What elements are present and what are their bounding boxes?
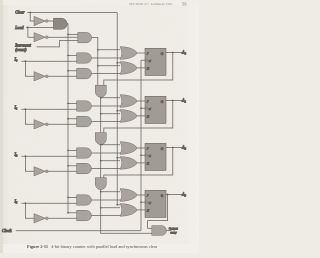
node load bus to K-AND stage 2 bbox=[67, 165, 69, 167]
clock triangle marker stage 3 bbox=[146, 201, 148, 204]
node load bus to J-AND stage 3 bbox=[67, 197, 69, 199]
flip-flop FF2 (JK) bbox=[145, 143, 166, 170]
svg-text:Clock: Clock bbox=[2, 228, 12, 233]
inverter U1 (Clear) bbox=[34, 16, 45, 25]
wire Q output stage 3 bbox=[166, 194, 182, 196]
and-gate load-J stage 2 (Load AND I2) bbox=[77, 148, 92, 158]
wire OR-J output to J input stage 1 bbox=[137, 100, 145, 102]
wire I2 down to inverter bbox=[25, 156, 34, 171]
wire K-AND output to OR-K stage 2 bbox=[91, 168, 120, 170]
wire clock branch to C input stage 1 bbox=[141, 107, 145, 109]
wire A3 feedback to carry gate bbox=[167, 194, 169, 196]
wire Clear down to inverter 1 bbox=[30, 13, 34, 22]
inverter U3 (I0) bbox=[34, 72, 45, 81]
svg-text:Increment: Increment bbox=[14, 43, 32, 47]
node I3 inverter tap bbox=[25, 202, 27, 204]
wire OR-K output to K input stage 1 bbox=[137, 115, 145, 117]
wire Clear-not to AND G1 bbox=[48, 20, 53, 22]
and-gate load-J stage 3 (Load AND I3) bbox=[77, 195, 92, 205]
wire clock branch to C input stage 0 bbox=[141, 59, 145, 61]
wire output carry out bbox=[166, 230, 171, 232]
and-gate load-K stage 2 (Load AND I2-not) bbox=[77, 163, 92, 174]
wire load bus branch to AND G2 top input bbox=[68, 33, 78, 35]
wire A1 feedback to chain AND bbox=[104, 101, 173, 134]
wire I0-not to AND bbox=[48, 75, 76, 77]
wire Clock horizontal bbox=[16, 230, 141, 232]
node I2 inverter tap bbox=[25, 155, 27, 157]
node count line to OR-K stage 3 bbox=[100, 207, 102, 209]
node count line to OR-J stage 1 bbox=[100, 97, 102, 99]
inverter U6 (I3) bbox=[34, 214, 45, 223]
paper background bbox=[0, 0, 199, 253]
wire I2 horizontal bbox=[22, 155, 77, 157]
wire count to OR-K stage 2 bbox=[101, 160, 120, 162]
node load bus to J-AND stage 1 bbox=[67, 103, 69, 105]
or-gate OR-K stage 0 bbox=[120, 62, 137, 75]
wire count to OR-K stage 0 bbox=[98, 65, 120, 67]
wire load bus branch to J-AND stage 3 bbox=[68, 196, 77, 198]
clock triangle marker stage 1 bbox=[146, 107, 148, 110]
svg-text:Clear: Clear bbox=[15, 10, 25, 15]
wire count to OR-K stage 3 bbox=[101, 207, 120, 209]
wire G2 output to count line bbox=[92, 38, 98, 86]
wire load bus branch to K-AND stage 1 bbox=[68, 118, 77, 120]
inverter U5 (I2) bbox=[34, 167, 45, 176]
wire count to OR-J stage 3 bbox=[101, 191, 120, 193]
node load bus to K-AND stage 3 bbox=[67, 212, 69, 214]
wire clear bus branch to OR-K stage 3 bbox=[117, 204, 120, 206]
wire clock branch to C input stage 2 bbox=[141, 154, 145, 156]
wire clock bus vertical bbox=[140, 60, 142, 231]
and-gate load-K stage 0 (Load AND I0-not) bbox=[77, 68, 92, 79]
inverter U2 (Load) bbox=[34, 33, 45, 42]
svg-text:(count): (count) bbox=[15, 48, 27, 52]
node Load inverter tap bbox=[27, 27, 29, 29]
wire clear bus vertical bbox=[116, 13, 118, 205]
node count line to OR-K stage 2 bbox=[100, 160, 102, 162]
node I1 inverter tap bbox=[25, 108, 27, 110]
node load bus to J-AND stage 2 bbox=[67, 150, 69, 152]
and-gate G1 (Load AND Clear-not), dark bbox=[53, 18, 67, 29]
and-gate G2 (count enable: Clear-not AND Load-not AND Increment) bbox=[78, 32, 92, 42]
node load bus to J-AND stage 0 bbox=[67, 55, 69, 57]
flip-flop FF0 (JK) bbox=[145, 48, 166, 75]
wire clear bus branch to OR-K stage 1 bbox=[117, 110, 120, 112]
wire J-AND output to OR-J stage 3 bbox=[91, 199, 120, 201]
flip-flop FF3 (JK) bbox=[145, 190, 166, 217]
wire A2 feedback to chain AND bbox=[104, 148, 173, 179]
wire count to OR-J stage 2 bbox=[101, 144, 120, 146]
node clock bus stage 1 bbox=[140, 107, 142, 109]
wire I2-not to AND bbox=[48, 170, 76, 172]
wire Load horizontal bbox=[26, 26, 53, 28]
and-gate load-J stage 1 (Load AND I1) bbox=[77, 101, 92, 111]
wire chain AND output down bbox=[100, 97, 102, 132]
wire OR-J output to J input stage 3 bbox=[137, 194, 145, 196]
or-gate OR-K stage 1 bbox=[120, 110, 137, 123]
wire I0 horizontal bbox=[22, 60, 77, 62]
or-gate OR-J stage 0 bbox=[120, 47, 137, 60]
svg-text:Load: Load bbox=[14, 25, 24, 30]
wire OR-J output to J input stage 0 bbox=[137, 52, 145, 54]
and-gate chain E2 (count AND A1) bbox=[95, 133, 106, 145]
wire K-AND output to OR-K stage 3 bbox=[91, 215, 120, 217]
or-gate OR-K stage 3 bbox=[120, 204, 137, 217]
wire load bus branch to J-AND stage 2 bbox=[68, 149, 77, 151]
wire Q output stage 2 bbox=[166, 147, 182, 149]
and-gate load-K stage 1 (Load AND I1-not) bbox=[77, 116, 92, 127]
node clear bus to OR-K stage 2 bbox=[116, 157, 118, 159]
wire load bus branch to K-AND stage 3 bbox=[68, 212, 77, 214]
wire I3-not to AND bbox=[48, 217, 76, 219]
node clock bus stage 2 bbox=[140, 154, 142, 156]
wire I1 down to inverter bbox=[25, 109, 34, 124]
node Clear inverter tap bbox=[29, 12, 31, 14]
svg-text:carry: carry bbox=[170, 231, 177, 235]
and-gate load-K stage 3 (Load AND I3-not) bbox=[77, 210, 92, 221]
node feedback tap A1 bbox=[172, 100, 174, 102]
wire load bus branch to J-AND stage 1 bbox=[68, 102, 77, 104]
node clear bus to OR-K stage 3 bbox=[116, 204, 118, 206]
node count line to OR-J stage 0 bbox=[97, 49, 99, 51]
wire load bus vertical bbox=[67, 34, 69, 212]
wire G1 output to load bus bbox=[66, 24, 69, 35]
and-gate chain E1 (count AND A0) bbox=[95, 85, 106, 97]
wire load bus branch to K-AND stage 0 bbox=[68, 70, 77, 72]
wire Load down to inverter 2 bbox=[28, 27, 34, 37]
wire load bus branch to K-AND stage 2 bbox=[68, 165, 77, 167]
wire count to OR-J stage 0 bbox=[98, 49, 120, 51]
and-gate chain E3 (count AND A2) bbox=[95, 178, 106, 190]
wire I3 down to inverter bbox=[25, 203, 34, 218]
node count line to OR-K stage 0 bbox=[97, 65, 99, 67]
wire count to OR-J stage 1 bbox=[101, 97, 120, 99]
wire I3 horizontal bbox=[22, 202, 77, 204]
node count line to OR-J stage 3 bbox=[100, 191, 102, 193]
node clear bus to OR-K stage 1 bbox=[116, 110, 118, 112]
wire load bus branch to J-AND stage 0 bbox=[68, 54, 77, 56]
wire Q output stage 0 bbox=[166, 52, 182, 54]
node feedback tap A0 bbox=[172, 52, 174, 54]
node clear bus to OR-K stage 0 bbox=[116, 62, 118, 64]
and-gate load-J stage 0 (Load AND I0) bbox=[77, 53, 92, 63]
flip-flop FF1 (JK) bbox=[145, 96, 166, 123]
node load-bus to G2 bbox=[67, 34, 69, 36]
wire clear bus branch to OR-K stage 2 bbox=[117, 157, 120, 159]
scan noise overlay bbox=[0, 0, 199, 253]
wire chain AND output down bbox=[100, 145, 102, 178]
wire I0 down to inverter bbox=[25, 61, 34, 76]
or-gate OR-K stage 2 bbox=[120, 157, 137, 170]
node count line to OR-J stage 2 bbox=[100, 144, 102, 146]
inverter U4 (I1) bbox=[34, 120, 45, 129]
clock triangle marker stage 2 bbox=[146, 154, 148, 157]
svg-text:Figure 2-11 4-bit binary cou: Figure 2-11 4-bit binary counter with pa… bbox=[27, 244, 158, 249]
wire clock branch to C input stage 3 bbox=[141, 201, 145, 203]
wire Clear horizontal to clear bus bbox=[27, 12, 117, 14]
wire J-AND output to OR-J stage 1 bbox=[91, 105, 120, 107]
svg-text:SECTION 2-7 Arithmetic Unit: SECTION 2-7 Arithmetic Unit bbox=[129, 2, 172, 6]
wire OR-K output to K input stage 3 bbox=[137, 209, 145, 211]
node count line to OR-K stage 1 bbox=[100, 113, 102, 115]
wire J-AND output to OR-J stage 0 bbox=[91, 57, 120, 59]
wire I1 horizontal bbox=[22, 108, 77, 110]
wire clear bus branch to OR-K stage 0 bbox=[117, 62, 120, 64]
or-gate OR-J stage 3 bbox=[120, 189, 137, 202]
wire count to OR-K stage 1 bbox=[101, 113, 120, 115]
node feedback tap A2 bbox=[172, 147, 174, 149]
or-gate OR-J stage 1 bbox=[120, 95, 137, 108]
wire OR-K output to K input stage 2 bbox=[137, 162, 145, 164]
or-gate OR-J stage 2 bbox=[120, 142, 137, 155]
wire I1-not to AND bbox=[48, 123, 76, 125]
wire J-AND output to OR-J stage 2 bbox=[91, 152, 120, 154]
wire A0 feedback to chain AND bbox=[104, 53, 173, 86]
node load bus to K-AND stage 1 bbox=[67, 118, 69, 120]
wire OR-K output to K input stage 0 bbox=[137, 67, 145, 69]
clock triangle marker stage 0 bbox=[146, 59, 148, 62]
wire K-AND output to OR-K stage 1 bbox=[91, 121, 120, 123]
node load bus to K-AND stage 0 bbox=[67, 70, 69, 72]
wire Increment to AND G2 bbox=[37, 41, 78, 47]
wire K-AND output to OR-K stage 0 bbox=[91, 73, 120, 75]
wire OR-J output to J input stage 2 bbox=[137, 147, 145, 149]
and-gate output carry bbox=[152, 226, 167, 236]
wire chain AND output down bbox=[101, 190, 152, 234]
node clock bus stage 3 bbox=[140, 201, 142, 203]
wire Q output stage 1 bbox=[166, 100, 182, 102]
wire Load-not to AND G2 bbox=[48, 36, 78, 38]
node I0 inverter tap bbox=[25, 60, 27, 62]
